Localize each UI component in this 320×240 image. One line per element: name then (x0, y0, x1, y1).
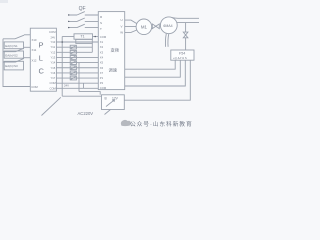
opto contact row 4 (70, 56, 76, 60)
wire Tr to inverter (93, 36, 99, 38)
wire S2 to X11 (24, 46, 30, 48)
terminal dot L1 (68, 14, 69, 15)
svg-text:X6: X6 (100, 66, 104, 70)
svg-text:24V: 24V (51, 36, 56, 40)
opto contact row 2 (70, 45, 76, 49)
pipe lower line (177, 22, 199, 24)
motor feed stub W (125, 30, 137, 32)
svg-text:L: L (39, 54, 43, 63)
adjust arrow inside G1 (106, 100, 115, 107)
svg-text:P2: P2 (100, 81, 104, 85)
breaker QF phase line 3 (69, 24, 99, 27)
svg-text:6MA4: 6MA4 (163, 24, 172, 28)
junction dot bus A row (61, 41, 63, 43)
svg-text:12V: 12V (112, 97, 119, 101)
svg-text:X12: X12 (32, 59, 37, 63)
svg-text:COM: COM (100, 35, 107, 39)
terminal dot L3 (68, 27, 69, 28)
inverter box U1 (98, 12, 124, 90)
pipe upper line (172, 17, 199, 20)
svg-text:公众号·山东科新教育: 公众号·山东科新教育 (130, 120, 193, 128)
ladder row 7 (56, 72, 98, 74)
svg-text:T: T (100, 27, 102, 31)
svg-text:X11: X11 (32, 48, 37, 52)
ladder row 4 (56, 56, 98, 58)
transformer box Tr (74, 34, 93, 39)
motor feed stub V (125, 25, 136, 27)
svg-text:Y15: Y15 (51, 66, 56, 70)
svg-text:W: W (120, 31, 123, 35)
ladder row 1 (56, 41, 98, 43)
svg-text:S: S (100, 21, 102, 25)
ladder row 9 (56, 82, 98, 84)
svg-text:Y14: Y14 (51, 61, 56, 65)
svg-text:X3: X3 (100, 50, 104, 54)
motor M1 (136, 19, 152, 35)
svg-text:C: C (39, 67, 45, 76)
ladder row 6 (56, 67, 98, 69)
coupling left triangle (152, 24, 156, 29)
pressure sensor box F54 (171, 50, 194, 60)
sensor wire 2 (125, 60, 181, 77)
tick from G1 to AC label (105, 110, 111, 115)
svg-text:COM: COM (49, 30, 56, 34)
pump 6MA1 (160, 17, 177, 34)
svg-text:EA(h)¹S1: EA(h)¹S1 (5, 44, 18, 48)
svg-text:COM: COM (50, 86, 57, 90)
sensor box S1 (4, 42, 23, 49)
svg-text:EA(h)¹S3: EA(h)¹S3 (5, 64, 18, 68)
sensor box S3 (4, 61, 23, 70)
ladder row 10 (56, 87, 98, 89)
diagonal ground lead (42, 97, 61, 115)
svg-text:X7: X7 (100, 71, 104, 75)
sensor wire 4 (124, 60, 190, 100)
vertical link right of relay loop (91, 43, 93, 52)
svg-text:V: V (121, 25, 123, 29)
wire S3 to X12 (24, 57, 30, 59)
top-left faint bar (0, 0, 8, 3)
svg-text:X2: X2 (100, 45, 104, 49)
svg-text:COM: COM (50, 81, 57, 85)
svg-text:Y16: Y16 (51, 71, 56, 75)
bus vertical A (61, 37, 63, 97)
svg-text:Y13: Y13 (51, 55, 56, 59)
switch blade S3 (3, 58, 24, 62)
svg-text:+Q ΔJ % S: +Q ΔJ % S (173, 56, 187, 60)
pump tail pipe left (164, 34, 167, 47)
ladder row 3 (56, 51, 92, 53)
ladder row 5 (56, 62, 98, 64)
opto contact row 3 (70, 50, 76, 54)
svg-text:F54: F54 (179, 51, 185, 55)
svg-text:QF: QF (79, 6, 86, 12)
svg-text:AC220V: AC220V (78, 111, 94, 116)
svg-text:M1: M1 (141, 24, 148, 29)
valve to sensor wire (185, 38, 187, 50)
svg-text:Y17: Y17 (51, 76, 56, 80)
opto contact row 6 (70, 66, 76, 70)
svg-text:U: U (121, 18, 123, 22)
link row9 to row10 (83, 83, 85, 88)
sensor wire 3 (125, 60, 186, 86)
svg-text:EA(h)¹S2: EA(h)¹S2 (5, 54, 18, 58)
sensor box S2 (4, 51, 23, 58)
breaker QF phase line 1 (69, 12, 99, 15)
common left wire to COM (3, 39, 30, 87)
svg-text:变频: 变频 (111, 46, 120, 53)
opto contact row 8 (70, 76, 76, 80)
pump tail pipe right (167, 34, 170, 47)
relay loop row 1 (76, 39, 93, 43)
shaft wire (151, 25, 154, 27)
svg-text:Y11: Y11 (51, 45, 56, 49)
junction dot Tr-inverter (94, 36, 96, 38)
sensor wire 1 (125, 60, 176, 69)
PLC box (30, 28, 56, 91)
ladder row 2 (56, 46, 92, 48)
svg-text:X4: X4 (100, 55, 104, 59)
valve V1 upper triangle (183, 32, 188, 35)
svg-text:X1: X1 (100, 40, 104, 44)
svg-text:COM: COM (31, 85, 38, 89)
svg-text:24V: 24V (64, 84, 69, 88)
svg-text:X10: X10 (32, 38, 37, 42)
svg-text:X5: X5 (100, 61, 104, 65)
svg-text:COM: COM (100, 86, 107, 90)
valve drop wire (185, 23, 187, 32)
supply wire upper (79, 92, 100, 95)
svg-text:Y12: Y12 (51, 50, 56, 54)
opto contact row 5 (70, 61, 76, 65)
bus vertical B (78, 63, 80, 92)
coupling right triangle (156, 24, 160, 29)
breaker QF phase line 2 (69, 18, 99, 21)
ladder row 8 (56, 77, 98, 79)
wire PLC to Tr (62, 36, 74, 38)
power supply box G1 (102, 95, 125, 110)
supply wire bottom (62, 95, 101, 97)
svg-text:P: P (39, 41, 44, 50)
motor feed stub U (125, 20, 137, 24)
switch blade S1 (3, 35, 24, 39)
opto contact row 7 (70, 71, 76, 75)
switch blade S2 (3, 48, 24, 52)
watermark logo (121, 120, 131, 126)
svg-text:P1: P1 (100, 76, 104, 80)
wire S1 to X10 (24, 34, 30, 36)
svg-text:Y10: Y10 (51, 40, 56, 44)
valve V1 lower triangle (183, 35, 188, 38)
terminal dot L2 (68, 21, 69, 22)
svg-text:调速: 调速 (109, 66, 118, 73)
svg-text:T1: T1 (81, 35, 85, 39)
